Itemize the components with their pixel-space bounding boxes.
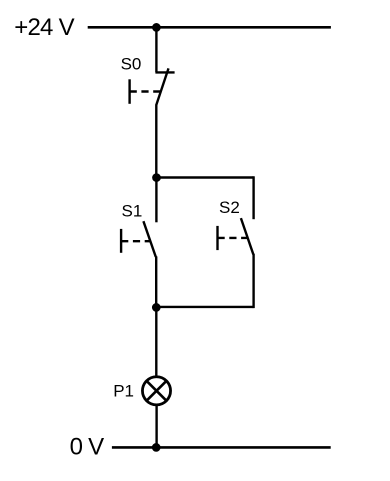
wire branch bottom horizontal bbox=[156, 306, 253, 308]
switch S0 (normally-closed pushbutton contact) bbox=[130, 68, 175, 105]
switch S2 (normally-open pushbutton contact) bbox=[218, 218, 254, 254]
wire rail junction to S0 bbox=[155, 27, 157, 72]
wire 0V return rail bbox=[112, 446, 331, 449]
wire S1 to junction B bbox=[155, 256, 157, 307]
lamp P1 (indicator light) bbox=[142, 377, 170, 405]
svg-text:0 V: 0 V bbox=[70, 434, 105, 461]
wire S0 to junction A bbox=[155, 105, 157, 178]
svg-text:S2: S2 bbox=[219, 198, 240, 217]
svg-text:S0: S0 bbox=[121, 54, 142, 73]
svg-text:P1: P1 bbox=[113, 382, 134, 401]
wire right branch down to S2 bbox=[252, 176, 254, 219]
node junction on 0V rail bbox=[152, 443, 161, 452]
node junction on +24V rail bbox=[152, 23, 161, 32]
wire lamp P1 to 0V rail bbox=[155, 404, 157, 447]
wire S2 down to branch bottom bbox=[252, 254, 254, 308]
node junction A (top of parallel branch) bbox=[152, 173, 161, 182]
node junction B (bottom of parallel branch) bbox=[152, 303, 161, 312]
wire branch to the right bbox=[157, 176, 254, 178]
svg-text:+24 V: +24 V bbox=[14, 14, 74, 41]
switch S1 (normally-open pushbutton contact) bbox=[121, 221, 156, 257]
wire left branch down to S1 bbox=[155, 178, 157, 223]
wire junction B to lamp P1 bbox=[155, 307, 157, 377]
wire +24V supply rail bbox=[88, 26, 331, 29]
svg-text:S1: S1 bbox=[122, 202, 143, 221]
